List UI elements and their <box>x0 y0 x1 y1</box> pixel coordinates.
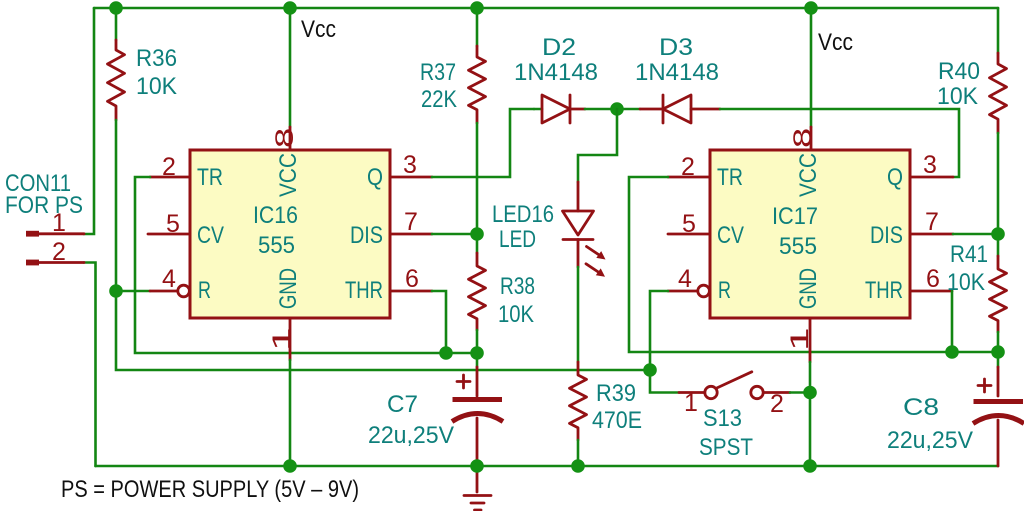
svg-text:PS = POWER SUPPLY (5V – 9V): PS = POWER SUPPLY (5V – 9V) <box>61 476 359 503</box>
wire top Vcc rail <box>94 7 998 10</box>
svg-text:1N4148: 1N4148 <box>514 59 598 86</box>
wire reset node 2 to switch <box>650 370 679 393</box>
wire Vcc1 column <box>289 8 292 127</box>
svg-text:555: 555 <box>258 232 295 259</box>
svg-text:22K: 22K <box>421 86 457 113</box>
pin 2 stub IC16 TR <box>150 176 190 179</box>
wire reset node to IC16 pin4 <box>116 290 150 293</box>
svg-text:R40: R40 <box>938 58 980 85</box>
op IC17 555 body <box>710 150 910 318</box>
ground <box>464 466 491 510</box>
resistor R40 <box>990 53 1007 133</box>
svg-text:THR: THR <box>345 277 383 304</box>
switch S13 <box>679 372 790 399</box>
svg-text:4: 4 <box>162 265 176 293</box>
svg-text:TR: TR <box>717 164 743 191</box>
svg-text:10K: 10K <box>937 83 978 110</box>
svg-text:GND: GND <box>275 268 302 309</box>
wire TR1 to timing node <box>135 177 477 353</box>
svg-text:2: 2 <box>681 153 695 181</box>
pin 8 stub IC16 VCC <box>289 127 292 150</box>
capacitor C8 <box>997 352 1000 367</box>
svg-text:1N4148: 1N4148 <box>635 59 719 86</box>
svg-text:1: 1 <box>52 209 66 237</box>
pin 3 stub IC17 Q <box>910 176 953 179</box>
diode D3 <box>640 95 720 123</box>
wire reset node down and across to IC17 reset <box>116 291 650 370</box>
svg-text:22u,25V: 22u,25V <box>368 422 454 449</box>
junction THR1 node <box>439 346 453 360</box>
svg-text:2: 2 <box>162 153 176 181</box>
wire R36 column top <box>115 8 118 40</box>
svg-text:2: 2 <box>770 390 784 418</box>
wire switch to GND2 column <box>790 391 810 394</box>
svg-text:1: 1 <box>786 327 814 351</box>
pin 7 stub IC17 DIS <box>910 233 953 236</box>
junction top rail R37 <box>470 1 484 15</box>
svg-text:Vcc: Vcc <box>301 16 336 43</box>
svg-text:R: R <box>718 277 731 304</box>
svg-text:R: R <box>198 277 211 304</box>
svg-text:Q: Q <box>367 164 383 191</box>
svg-text:LED16: LED16 <box>492 201 554 228</box>
wire THR1 down to timing node <box>432 291 446 353</box>
svg-text:CV: CV <box>197 222 224 249</box>
op IC16 555 body <box>190 150 390 318</box>
pin 6 stub IC16 THR <box>390 290 432 293</box>
svg-text:10K: 10K <box>136 73 177 100</box>
pin 5 stub IC16 CV <box>148 233 190 236</box>
junction THR2 node <box>945 345 959 359</box>
plus sign C8 <box>978 379 991 392</box>
resistor R41 <box>997 234 1000 256</box>
pin 5 stub IC17 CV <box>668 233 710 236</box>
resistor R36 <box>108 40 125 120</box>
svg-text:5: 5 <box>166 210 180 238</box>
pin 6 stub IC17 THR <box>910 290 952 293</box>
svg-text:CV: CV <box>717 222 744 249</box>
svg-text:S13: S13 <box>703 405 742 432</box>
svg-text:R41: R41 <box>950 241 988 268</box>
svg-text:7: 7 <box>925 208 939 236</box>
svg-text:470E: 470E <box>592 407 642 434</box>
svg-text:555: 555 <box>779 233 817 260</box>
svg-text:DIS: DIS <box>870 222 903 249</box>
wire R40 bottom to DIS2 node <box>997 133 1000 234</box>
svg-text:6: 6 <box>926 265 940 293</box>
wire TR2 to timing node 2 <box>629 177 998 352</box>
pin 4 stub IC16 R with bubble <box>150 290 178 293</box>
capacitor C7 <box>476 353 479 367</box>
wire R37 bottom to DIS node <box>476 123 479 234</box>
wire Vcc2 column <box>810 8 813 127</box>
junction reset node 1 <box>109 284 123 298</box>
wire diode node to LED16 <box>578 109 617 182</box>
wire CON11 pin2 down to GND rail <box>84 263 96 467</box>
svg-text:6: 6 <box>405 265 419 293</box>
svg-text:R38: R38 <box>500 273 535 300</box>
resistor R39 <box>570 362 587 440</box>
svg-text:5: 5 <box>682 210 696 238</box>
junction GND rail C7 <box>470 459 484 473</box>
wire R40 column top <box>997 8 1000 53</box>
svg-text:1: 1 <box>268 327 296 351</box>
svg-text:IC17: IC17 <box>772 203 818 230</box>
wire D3 anode to Q2 <box>720 109 959 177</box>
svg-text:7: 7 <box>404 208 418 236</box>
wire left border (CON11 pin1 to Vcc rail) <box>84 8 94 234</box>
wire Q1 to D2 <box>432 109 534 177</box>
svg-text:R36: R36 <box>136 45 177 72</box>
svg-text:FOR PS: FOR PS <box>5 192 83 219</box>
plus sign C7 <box>457 375 470 388</box>
resistor R37 <box>469 46 486 123</box>
svg-text:THR: THR <box>865 277 903 304</box>
svg-text:10K: 10K <box>947 269 985 296</box>
svg-text:SPST: SPST <box>699 434 753 461</box>
svg-text:3: 3 <box>923 151 937 179</box>
wire bottom GND rail <box>96 465 999 468</box>
junction DIS2 node <box>991 227 1005 241</box>
svg-text:D2: D2 <box>542 34 576 61</box>
wire R37 column top <box>476 8 479 46</box>
wire GND2 down <box>809 362 812 466</box>
junction C7 node <box>470 346 484 360</box>
wire THR2 down <box>951 291 954 352</box>
svg-text:8: 8 <box>789 128 817 148</box>
pin 1 stub IC17 GND <box>809 318 812 362</box>
svg-text:3: 3 <box>403 151 417 179</box>
svg-text:VCC: VCC <box>275 153 302 197</box>
junction top rail Vcc2 <box>804 1 818 15</box>
svg-text:4: 4 <box>678 265 692 293</box>
svg-text:TR: TR <box>197 164 223 191</box>
svg-text:C7: C7 <box>387 391 418 418</box>
wire R36 bottom to reset node <box>115 120 118 291</box>
junction switch GND <box>803 386 817 400</box>
junction DIS1 node <box>470 227 484 241</box>
svg-text:GND: GND <box>795 268 822 309</box>
junction reset node 2 <box>643 363 657 377</box>
resistor R38 <box>476 234 479 253</box>
wire DIS2 to node <box>953 233 998 236</box>
connector CON11 <box>26 231 84 266</box>
svg-text:1: 1 <box>684 389 698 417</box>
junction GND rail GND2 <box>803 459 817 473</box>
pin 3 stub IC16 Q <box>390 176 432 179</box>
junction top rail Vcc1 <box>283 1 297 15</box>
svg-text:10K: 10K <box>498 301 534 328</box>
wire R2 pin to reset node 2 <box>650 291 668 370</box>
svg-text:LED: LED <box>499 226 536 253</box>
node diodes junction <box>610 102 624 116</box>
svg-text:22u,25V: 22u,25V <box>887 427 973 454</box>
wire D2 cathode to node <box>585 108 640 111</box>
wire DIS1 to node <box>432 233 477 236</box>
svg-text:DIS: DIS <box>350 222 383 249</box>
pin 1 stub IC16 GND <box>289 318 292 360</box>
svg-text:C8: C8 <box>903 394 939 421</box>
wire LED to R39 <box>577 267 580 362</box>
junction top rail R36 <box>109 1 123 15</box>
wire GND1 down <box>289 360 292 466</box>
svg-text:Vcc: Vcc <box>818 29 853 56</box>
svg-text:8: 8 <box>271 128 299 148</box>
pin 4 stub IC17 R with bubble <box>668 290 698 293</box>
svg-text:D3: D3 <box>659 34 693 61</box>
svg-text:Q: Q <box>887 164 903 191</box>
svg-text:R39: R39 <box>596 380 636 407</box>
junction GND rail R39 <box>571 459 585 473</box>
pin 7 stub IC16 DIS <box>390 233 432 236</box>
junction GND rail IC16 <box>283 459 297 473</box>
junction C8 node <box>991 345 1005 359</box>
pin 2 stub IC17 TR <box>668 176 710 179</box>
LED LED16 <box>563 182 606 277</box>
diode D2 <box>534 108 542 111</box>
svg-text:R37: R37 <box>420 59 456 86</box>
pin 8 stub IC17 VCC <box>810 127 813 150</box>
svg-text:2: 2 <box>52 238 66 266</box>
svg-text:VCC: VCC <box>795 153 822 197</box>
svg-text:IC16: IC16 <box>253 202 298 229</box>
